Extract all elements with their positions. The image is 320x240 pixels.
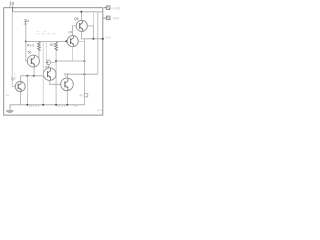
wire Q5 base L: [73, 26, 77, 36]
wire Q7 collector up: [20, 76, 22, 82]
terminal -VIN pad: [107, 16, 111, 20]
terminal +VIN stub: [104, 7, 106, 9]
node junction dot J (Q6 base): [65, 40, 67, 42]
terminal +VIN pad: [107, 6, 111, 10]
node junction dot F: [84, 73, 86, 75]
wire vertical x97.8: [97, 12, 99, 74]
node junction dot D: [55, 60, 57, 62]
wire vertical x43.2 full: [42, 42, 44, 105]
wire S1 lead right: [51, 61, 56, 63]
pin I1 stub: [12, 7, 14, 12]
svg-text:Q7: Q7: [11, 77, 16, 81]
svg-text:Q5: Q5: [74, 17, 79, 21]
transistor Q5: [76, 20, 87, 31]
node junction dot C: [25, 41, 27, 43]
transistor Q8: [43, 68, 56, 81]
wire top horizontal bus (left of Q6): [26, 41, 67, 43]
node junction dot B: [33, 75, 35, 77]
transistor Q2: [27, 55, 39, 67]
svg-text:Q6: Q6: [68, 30, 72, 34]
transistor Q4: [61, 78, 74, 91]
wire Q4 collector up: [66, 74, 68, 78]
wire outer loop rectangle: [4, 8, 103, 115]
node junction dot M: [55, 104, 57, 106]
wire base stub Q7: [12, 86, 15, 88]
wire mid horizontal: [56, 60, 84, 62]
wire Q2 base stub: [26, 60, 28, 62]
svg-text:+VIN: +VIN: [112, 6, 121, 10]
wire vertical x25.8: [25, 25, 27, 61]
resistor R5 box: [84, 94, 88, 97]
label faint ticks 1: [30, 105, 39, 107]
pin I2 stub: [25, 22, 27, 25]
label faint ticks 3: [74, 105, 76, 107]
wire Q7 emitter down: [20, 91, 22, 104]
svg-text:1: 1: [14, 73, 16, 76]
node junction dot L: [42, 104, 44, 106]
wire vertical x93.4 lower: [92, 26, 94, 39]
wire Q8 base stub: [42, 73, 44, 75]
wire S1 to Q8: [48, 65, 50, 68]
wire vertical x27 down to ground rail: [26, 76, 28, 105]
resistor R1 body: [38, 42, 41, 51]
wire R2 bottom down to ground rail: [55, 50, 57, 105]
wire ground rail: [10, 104, 85, 106]
wire horizontal y38.8: [81, 38, 102, 40]
label faint ticks 2: [58, 105, 65, 107]
wire Q4 emitter down: [66, 91, 68, 105]
svg-text:ou5: ou5: [105, 36, 111, 40]
wire left vertical from pin down: [11, 12, 13, 87]
node junction dot A: [26, 75, 28, 77]
wire Q5 collector to rail: [80, 12, 82, 20]
wire R5 to ground rail: [84, 97, 86, 105]
diode S1 (small device): [46, 60, 51, 65]
wire +V rail (inner horizontal): [12, 11, 103, 13]
wire Q6 bottom down: [72, 47, 74, 61]
wire Q5 emitter right: [87, 25, 93, 27]
node junction dot H: [92, 38, 94, 40]
wire faint vertical x46.3: [45, 42, 47, 63]
node junction dot N: [66, 104, 68, 106]
svg-text:gnd: gnd: [97, 108, 102, 112]
svg-text:R1-2: R1-2: [27, 43, 34, 47]
node junction dot E: [84, 60, 86, 62]
transistor Q7: [15, 82, 25, 92]
node junction dot I: [102, 38, 104, 40]
node junction dot K: [26, 104, 28, 106]
resistor R2 body: [55, 42, 58, 51]
svg-text:-VIN: -VIN: [112, 17, 120, 21]
wire horizontal mid-left: [21, 75, 45, 77]
wire vertical x93.4 upper: [92, 12, 94, 26]
terminal -VIN arrowhead: [105, 17, 106, 19]
wire vertical x84.5: [84, 39, 86, 94]
ground symbol: [6, 105, 13, 113]
wire top horizontal bus (right of Q6): [78, 41, 84, 43]
label faint annotation row: [37, 32, 56, 34]
wire Q5 bottom lead: [80, 32, 82, 39]
wire R1 bottom to Q2 collector: [38, 50, 40, 58]
wire horizontal y74.2: [67, 73, 98, 75]
svg-text:50: 50: [28, 51, 32, 55]
wire Q8 emitter to Q4 base: [50, 80, 61, 84]
terminal -VIN stub: [103, 17, 106, 19]
transistor Q6: [67, 36, 78, 47]
terminal +VIN arrowhead: [105, 7, 106, 9]
node junction dot G: [80, 11, 82, 13]
svg-text:1u: 1u: [6, 93, 10, 97]
svg-text:R-: R-: [80, 94, 83, 98]
wire Q2 emitter down: [33, 67, 35, 76]
